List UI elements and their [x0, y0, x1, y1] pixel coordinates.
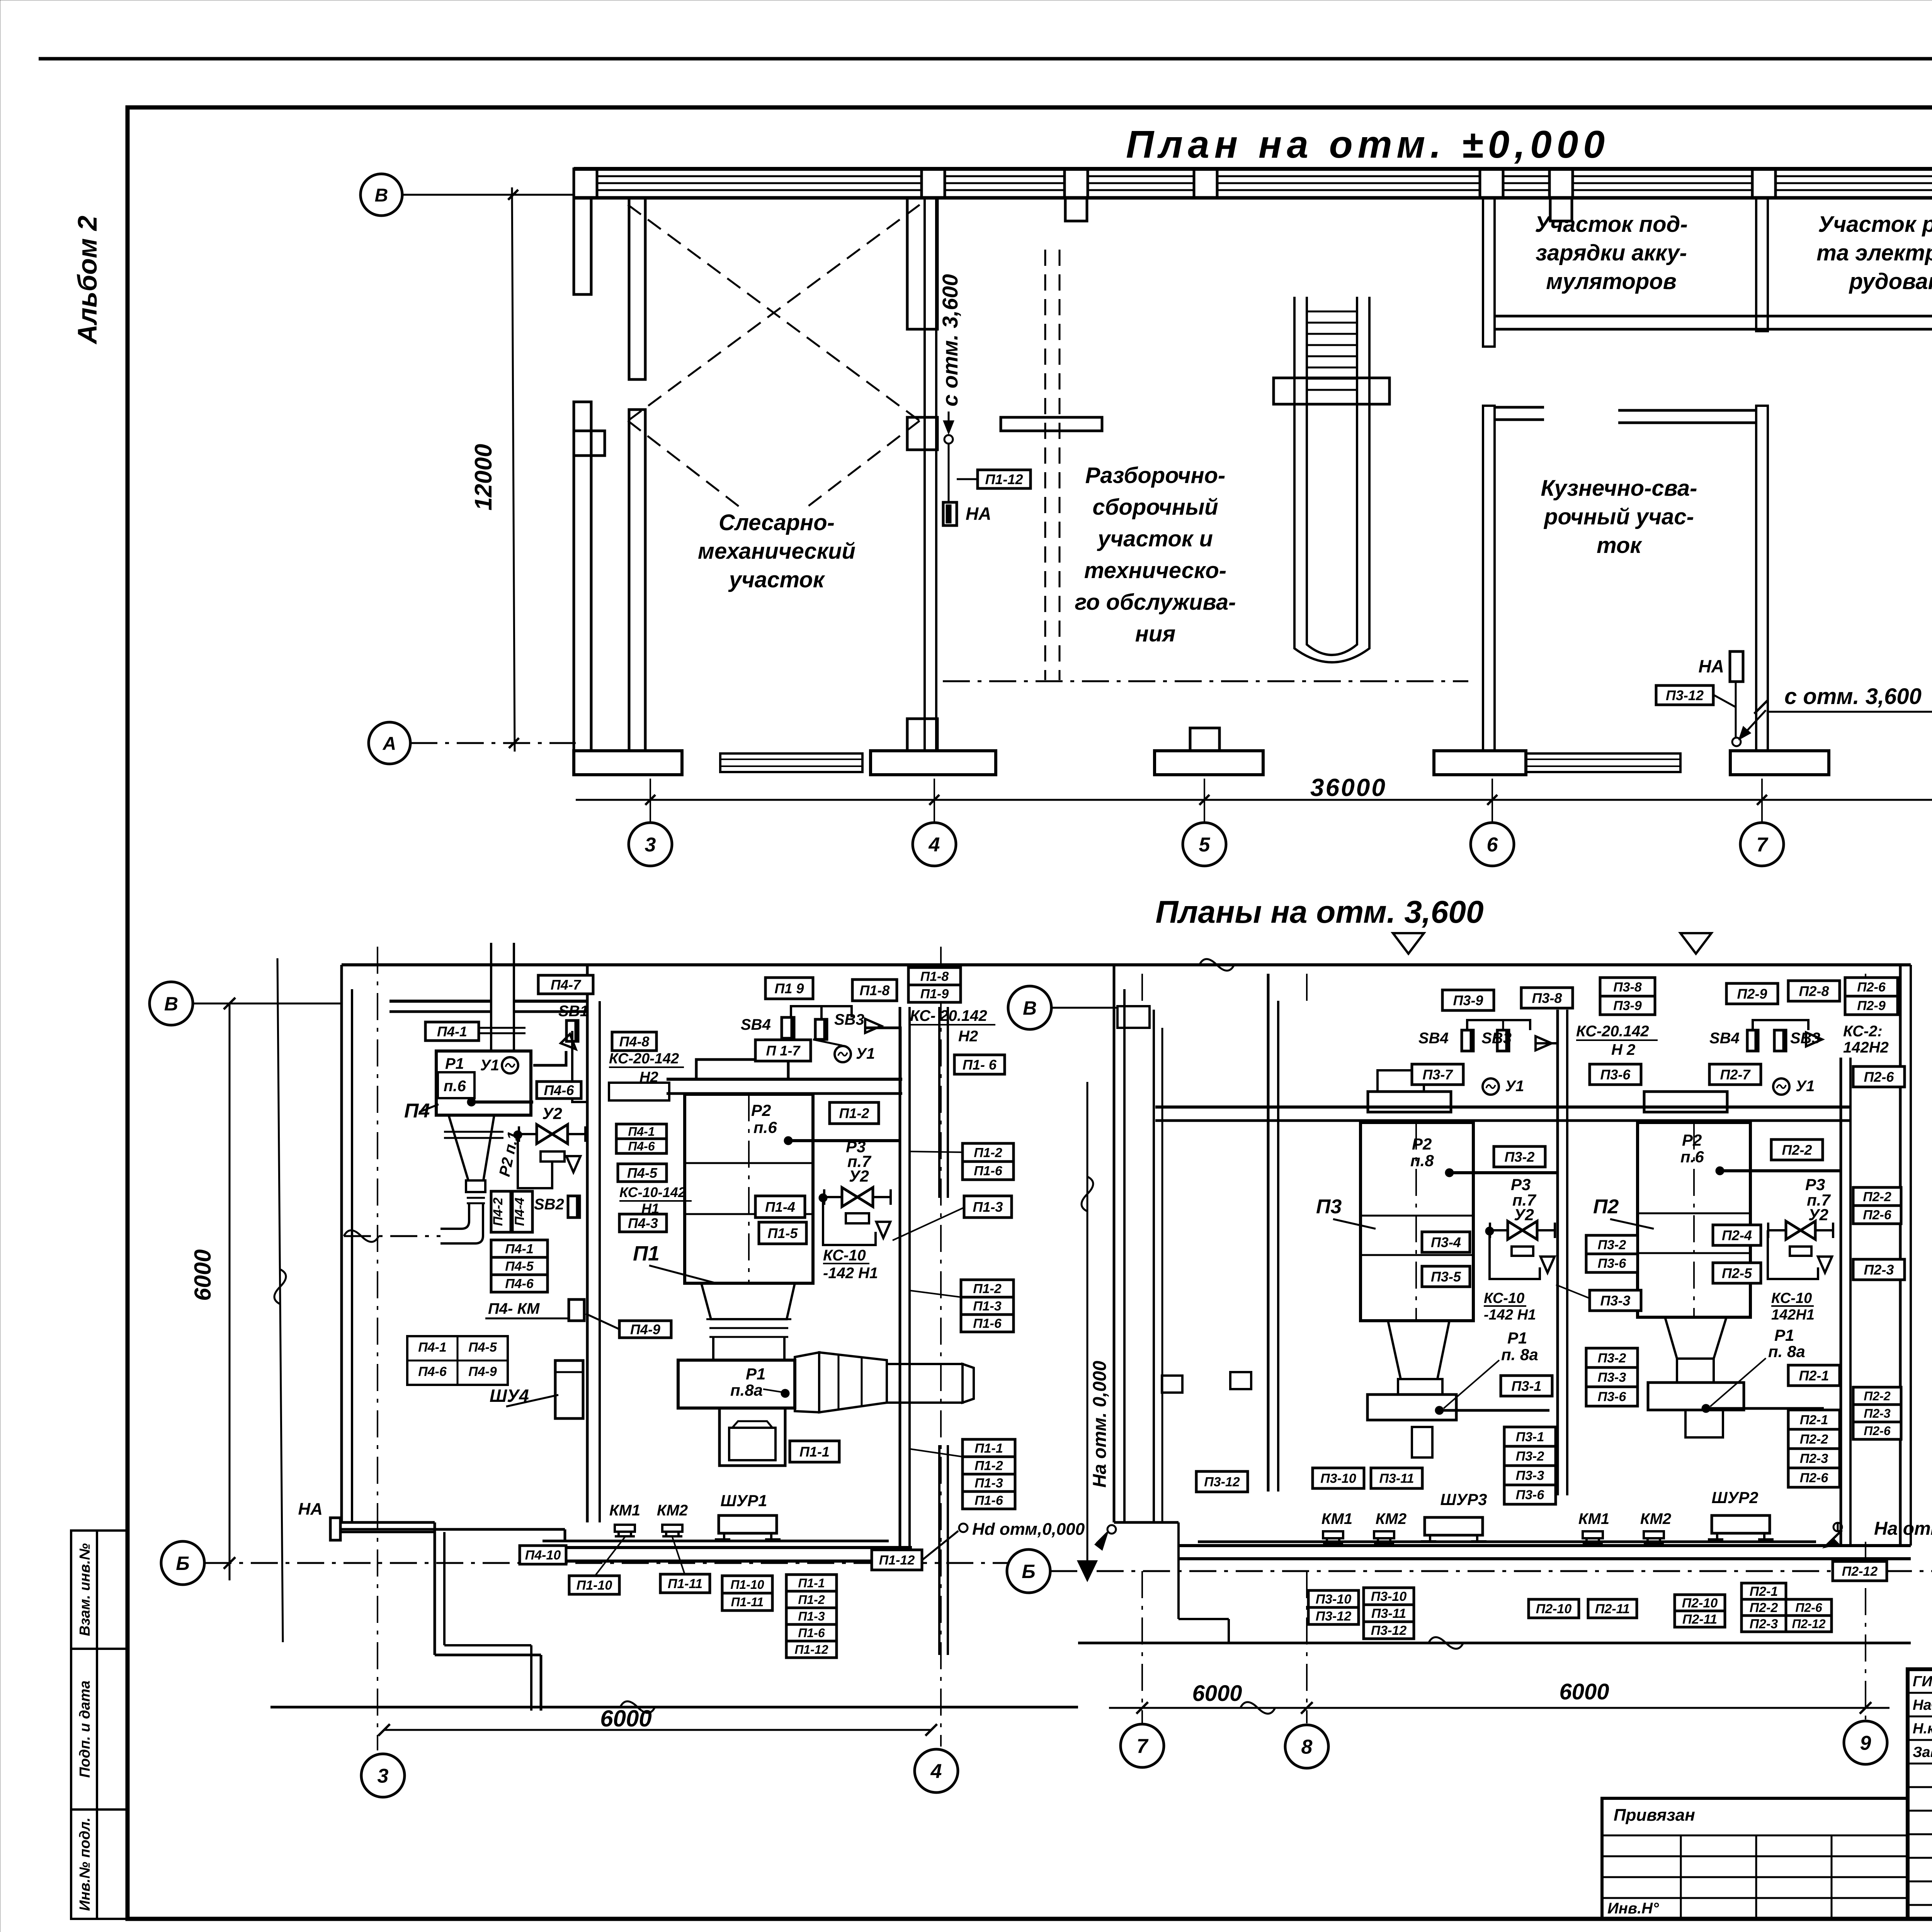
svg-text:Участок под-зарядки акку-мулят: Участок под-зарядки акку-муляторов [1535, 212, 1687, 294]
svg-text:П4-4: П4-4 [512, 1197, 527, 1226]
svg-text:П2-1: П2-1 [1799, 1367, 1829, 1383]
svg-text:П1 9: П1 9 [775, 980, 804, 996]
svg-text:Р2: Р2 [1412, 1135, 1432, 1153]
svg-text:Б: Б [176, 1553, 189, 1574]
svg-text:П3-10: П3-10 [1371, 1589, 1407, 1604]
svg-text:У2: У2 [849, 1167, 869, 1185]
svg-text:КС-2:: КС-2: [1843, 1023, 1883, 1040]
svg-text:П3-6: П3-6 [1600, 1066, 1631, 1082]
svg-text:План на отм. ±0,000: План на отм. ±0,000 [1126, 123, 1610, 166]
svg-text:П3: П3 [1316, 1196, 1342, 1218]
svg-text:В: В [1023, 997, 1037, 1019]
svg-text:П1-12: П1-12 [794, 1643, 828, 1656]
svg-text:У2: У2 [1808, 1206, 1828, 1224]
svg-text:П1-6: П1-6 [973, 1316, 1002, 1331]
svg-text:SВ1: SВ1 [558, 1003, 588, 1020]
svg-text:П2-8: П2-8 [1799, 983, 1829, 999]
svg-text:П3-12: П3-12 [1204, 1475, 1240, 1490]
svg-text:П1-10: П1-10 [730, 1578, 764, 1592]
svg-text:П2-6: П2-6 [1864, 1069, 1895, 1085]
svg-text:КС-10: КС-10 [1484, 1290, 1524, 1306]
svg-text:Н 2: Н 2 [1611, 1041, 1635, 1058]
svg-text:3: 3 [645, 834, 656, 856]
svg-text:П1-2: П1-2 [973, 1282, 1002, 1296]
svg-text:П3-5: П3-5 [1431, 1269, 1461, 1284]
svg-text:П2-9: П2-9 [1857, 998, 1886, 1013]
svg-text:П2-10: П2-10 [1682, 1596, 1718, 1611]
svg-text:КМ2: КМ2 [657, 1502, 688, 1519]
svg-text:П4: П4 [404, 1100, 430, 1122]
svg-text:П1-2: П1-2 [975, 1459, 1003, 1473]
svg-text:П2-11: П2-11 [1682, 1612, 1717, 1627]
svg-text:П3-3: П3-3 [1516, 1468, 1544, 1483]
svg-text:6000: 6000 [1559, 1679, 1609, 1704]
svg-text:8: 8 [1301, 1736, 1313, 1759]
svg-text:П3-12: П3-12 [1371, 1623, 1407, 1638]
svg-text:4: 4 [930, 1760, 942, 1783]
svg-text:Взам. инв.№: Взам. инв.№ [77, 1543, 93, 1636]
svg-text:6000: 6000 [600, 1706, 651, 1731]
svg-text:Н.контр.: Н.контр. [1913, 1721, 1932, 1737]
svg-text:Нач.отд.: Нач.отд. [1913, 1697, 1932, 1713]
svg-text:П1-1: П1-1 [975, 1441, 1003, 1456]
svg-text:П3-6: П3-6 [1598, 1256, 1627, 1271]
svg-text:КС-10: КС-10 [823, 1247, 866, 1264]
svg-text:Р1: Р1 [746, 1365, 765, 1383]
svg-text:Р2: Р2 [1682, 1131, 1702, 1149]
svg-text:Альбом 2: Альбом 2 [72, 216, 102, 345]
svg-text:НА: НА [298, 1500, 323, 1519]
svg-text:КС-20.142: КС-20.142 [1576, 1023, 1649, 1040]
svg-text:П3-8: П3-8 [1613, 980, 1642, 995]
svg-text:6: 6 [1487, 834, 1498, 856]
svg-text:с отм. 3,600: с отм. 3,600 [1784, 684, 1922, 709]
svg-text:На отм. 0,000: На отм. 0,000 [1090, 1361, 1110, 1488]
svg-text:П1-6: П1-6 [974, 1164, 1003, 1179]
svg-text:На отм.0,000: На отм.0,000 [1874, 1519, 1932, 1539]
svg-text:6000: 6000 [190, 1249, 216, 1301]
svg-text:П4-7: П4-7 [551, 977, 582, 993]
svg-text:У1: У1 [1796, 1078, 1815, 1095]
svg-text:КМ1: КМ1 [1321, 1510, 1352, 1527]
svg-text:П1: П1 [633, 1242, 660, 1265]
svg-text:П2-6: П2-6 [1795, 1601, 1822, 1615]
svg-text:П3-6: П3-6 [1516, 1488, 1545, 1502]
svg-text:П3-10: П3-10 [1316, 1592, 1352, 1607]
svg-text:П3-2: П3-2 [1598, 1351, 1626, 1366]
svg-text:ШУР2: ШУР2 [1712, 1488, 1759, 1507]
svg-text:У1: У1 [856, 1045, 875, 1062]
svg-text:п.6: п.6 [1680, 1148, 1704, 1166]
svg-text:Н2: Н2 [958, 1028, 978, 1045]
svg-text:П1-1: П1-1 [798, 1576, 825, 1590]
svg-text:А: А [383, 733, 396, 754]
svg-text:КМ2: КМ2 [1640, 1510, 1671, 1527]
svg-text:П3-3: П3-3 [1598, 1370, 1626, 1385]
svg-text:КМ2: КМ2 [1376, 1510, 1406, 1527]
svg-text:Б: Б [1022, 1561, 1035, 1582]
svg-text:П1-6: П1-6 [975, 1493, 1003, 1508]
svg-text:П2-2: П2-2 [1782, 1142, 1812, 1158]
svg-text:П2-3: П2-3 [1750, 1617, 1778, 1631]
svg-text:12000: 12000 [470, 444, 497, 510]
svg-text:П1-12: П1-12 [879, 1553, 915, 1568]
svg-text:П3-11: П3-11 [1371, 1606, 1406, 1621]
svg-text:П3-4: П3-4 [1431, 1234, 1461, 1250]
svg-text:с отм. 3,600: с отм. 3,600 [938, 274, 962, 406]
svg-text:НА: НА [966, 503, 991, 524]
svg-text:П2: П2 [1593, 1196, 1619, 1218]
svg-text:П2-2: П2-2 [1750, 1600, 1778, 1615]
svg-text:П4-1: П4-1 [628, 1125, 655, 1139]
svg-text:П1-4: П1-4 [765, 1199, 795, 1215]
svg-text:6000: 6000 [1192, 1681, 1242, 1706]
svg-text:ШУР3: ШУР3 [1440, 1490, 1487, 1509]
svg-text:П 1-7: П 1-7 [766, 1043, 801, 1058]
svg-text:П1- 6: П1- 6 [963, 1057, 997, 1073]
svg-text:П1-3: П1-3 [975, 1476, 1003, 1491]
svg-text:-142 Н1: -142 Н1 [1484, 1307, 1536, 1323]
svg-text:П4-9: П4-9 [468, 1364, 497, 1379]
svg-text:Подп. и дата: Подп. и дата [77, 1680, 93, 1778]
svg-text:КС-20-142: КС-20-142 [609, 1051, 679, 1067]
svg-text:SВ2: SВ2 [534, 1196, 564, 1213]
svg-text:У2: У2 [1514, 1206, 1534, 1224]
svg-text:П1-3: П1-3 [973, 1299, 1002, 1314]
svg-text:П3-10: П3-10 [1320, 1471, 1356, 1486]
svg-text:П2-6: П2-6 [1800, 1471, 1829, 1485]
svg-text:П2-6: П2-6 [1864, 1424, 1890, 1438]
svg-text:П3-1: П3-1 [1512, 1378, 1542, 1394]
svg-text:SВ4: SВ4 [741, 1016, 771, 1033]
svg-text:9: 9 [1860, 1732, 1871, 1755]
svg-text:П2-3: П2-3 [1864, 1406, 1890, 1420]
svg-text:П4-9: П4-9 [630, 1321, 660, 1337]
svg-text:П3-1: П3-1 [1516, 1430, 1544, 1444]
svg-text:П3-2: П3-2 [1598, 1238, 1626, 1252]
svg-text:П2-3: П2-3 [1864, 1262, 1894, 1277]
svg-text:В: В [375, 185, 388, 206]
svg-text:П2-1: П2-1 [1750, 1584, 1778, 1599]
svg-text:П2-2: П2-2 [1800, 1432, 1828, 1447]
svg-text:П2-7: П2-7 [1720, 1066, 1751, 1082]
svg-text:П2-5: П2-5 [1722, 1265, 1752, 1281]
svg-text:П2-3: П2-3 [1800, 1451, 1828, 1466]
svg-text:П1-6: П1-6 [798, 1626, 825, 1640]
svg-text:7: 7 [1137, 1735, 1149, 1758]
svg-text:П4- КМ: П4- КМ [488, 1300, 540, 1317]
svg-text:П1-10: П1-10 [577, 1578, 612, 1593]
svg-text:П3-2: П3-2 [1505, 1149, 1535, 1165]
svg-text:П2-2: П2-2 [1864, 1389, 1890, 1403]
svg-text:Нd отм,0,000: Нd отм,0,000 [972, 1520, 1085, 1539]
svg-text:П4-1: П4-1 [437, 1024, 467, 1039]
svg-text:П4-1: П4-1 [505, 1242, 534, 1257]
svg-text:Инв.№ подл.: Инв.№ подл. [77, 1817, 93, 1911]
svg-text:П1-3: П1-3 [798, 1609, 825, 1623]
svg-text:5: 5 [1199, 834, 1211, 856]
svg-text:П3-12: П3-12 [1666, 687, 1704, 703]
svg-text:Р1: Р1 [1774, 1326, 1794, 1344]
svg-text:п.8а: п.8а [730, 1381, 763, 1399]
svg-text:Планы на отм. 3,600: Планы на отм. 3,600 [1155, 895, 1483, 930]
svg-text:П3-3: П3-3 [1600, 1293, 1631, 1308]
svg-text:п. 8а: п. 8а [1501, 1345, 1538, 1364]
svg-text:П1-2: П1-2 [839, 1105, 869, 1121]
svg-text:П3-12: П3-12 [1316, 1609, 1352, 1624]
svg-text:П4-6: П4-6 [544, 1082, 575, 1098]
svg-text:П1-11: П1-11 [668, 1577, 702, 1591]
svg-text:П3-2: П3-2 [1516, 1449, 1544, 1464]
svg-text:Привязан: Привязан [1614, 1806, 1695, 1825]
svg-text:п.8: п.8 [1410, 1151, 1434, 1170]
svg-text:ГИП: ГИП [1913, 1673, 1932, 1690]
svg-text:КМ1: КМ1 [609, 1502, 640, 1519]
svg-text:П4-5: П4-5 [627, 1165, 658, 1181]
svg-text:П1-2: П1-2 [974, 1146, 1002, 1160]
svg-text:П4-3: П4-3 [628, 1215, 658, 1231]
svg-text:36000: 36000 [1310, 774, 1387, 801]
svg-text:SВ3: SВ3 [1481, 1030, 1512, 1047]
svg-text:У1: У1 [1505, 1078, 1524, 1095]
svg-text:У1: У1 [480, 1057, 499, 1074]
svg-text:П4-10: П4-10 [525, 1548, 561, 1563]
svg-text:7: 7 [1757, 834, 1769, 856]
svg-text:4: 4 [929, 834, 940, 856]
svg-text:П2-10: П2-10 [1536, 1602, 1572, 1616]
svg-text:П4-2: П4-2 [491, 1197, 505, 1226]
svg-text:ШУР1: ШУР1 [721, 1492, 767, 1510]
svg-text:Р1: Р1 [1507, 1329, 1527, 1347]
svg-text:НА: НА [1699, 656, 1724, 676]
svg-text:п.6: п.6 [753, 1118, 777, 1136]
svg-text:П3-9: П3-9 [1453, 992, 1483, 1008]
svg-text:Р2: Р2 [751, 1101, 771, 1119]
svg-text:П3-6: П3-6 [1598, 1389, 1627, 1404]
svg-text:SВ4: SВ4 [1418, 1030, 1449, 1047]
svg-text:142Н2: 142Н2 [1843, 1039, 1889, 1056]
svg-text:П1-11: П1-11 [731, 1595, 764, 1609]
svg-text:П1-2: П1-2 [798, 1593, 825, 1607]
svg-text:п. 8а: п. 8а [1768, 1342, 1805, 1361]
svg-text:П1-8: П1-8 [920, 969, 949, 984]
svg-text:Зав.гр.: Зав.гр. [1913, 1744, 1932, 1760]
svg-text:П4-8: П4-8 [619, 1034, 650, 1049]
svg-text:П1-1: П1-1 [799, 1444, 830, 1459]
svg-text:П2-12: П2-12 [1792, 1617, 1825, 1631]
svg-text:П1-9: П1-9 [920, 987, 949, 1002]
svg-text:Р1: Р1 [445, 1055, 464, 1072]
svg-text:П2-2: П2-2 [1863, 1190, 1891, 1204]
svg-text:142Н1: 142Н1 [1771, 1307, 1815, 1323]
svg-text:П4-1: П4-1 [418, 1340, 447, 1355]
svg-text:П2-4: П2-4 [1722, 1227, 1752, 1243]
svg-text:П3-11: П3-11 [1379, 1471, 1414, 1486]
svg-text:КС-10-142: КС-10-142 [619, 1184, 686, 1200]
svg-text:п.6: п.6 [444, 1078, 466, 1095]
svg-text:П1-8: П1-8 [860, 982, 890, 998]
svg-text:П4-5: П4-5 [505, 1259, 534, 1274]
svg-text:П3-8: П3-8 [1532, 990, 1562, 1006]
svg-text:В: В [164, 993, 178, 1015]
svg-text:П4-6: П4-6 [628, 1139, 655, 1153]
svg-text:П2-11: П2-11 [1595, 1602, 1630, 1616]
svg-text:П1-5: П1-5 [768, 1225, 798, 1241]
svg-text:П2-12: П2-12 [1842, 1564, 1878, 1579]
svg-text:П2-6: П2-6 [1857, 980, 1886, 995]
svg-text:П1-3: П1-3 [973, 1199, 1003, 1215]
svg-text:3: 3 [378, 1765, 389, 1787]
svg-text:П4-6: П4-6 [505, 1277, 534, 1291]
svg-text:П4-5: П4-5 [468, 1340, 497, 1355]
svg-text:КМ1: КМ1 [1578, 1510, 1609, 1527]
svg-text:П2-6: П2-6 [1863, 1208, 1892, 1223]
svg-text:SВ3: SВ3 [834, 1011, 864, 1028]
svg-text:Инв.Н°: Инв.Н° [1607, 1900, 1659, 1917]
svg-text:КС- 20.142: КС- 20.142 [910, 1007, 987, 1024]
svg-text:У2: У2 [542, 1104, 562, 1122]
svg-text:-142 Н1: -142 Н1 [823, 1265, 878, 1282]
svg-text:П3-7: П3-7 [1423, 1066, 1454, 1082]
svg-text:П3-9: П3-9 [1613, 998, 1642, 1013]
svg-text:П2-1: П2-1 [1800, 1413, 1828, 1427]
svg-text:П2-9: П2-9 [1737, 986, 1767, 1002]
svg-text:SВ4: SВ4 [1709, 1030, 1740, 1047]
svg-text:КС-10: КС-10 [1771, 1290, 1812, 1306]
svg-text:П1-12: П1-12 [985, 471, 1023, 487]
svg-text:П4-6: П4-6 [418, 1364, 447, 1379]
